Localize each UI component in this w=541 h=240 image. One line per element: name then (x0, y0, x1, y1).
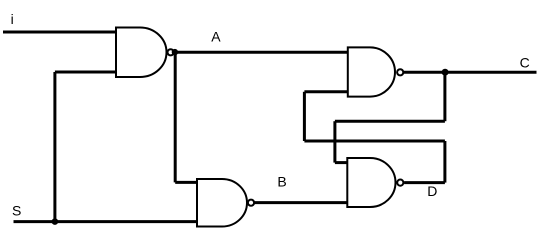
wire C feedback down to U4 (333, 121, 336, 162)
nand U4 body (347, 158, 395, 207)
svg-text:S: S (12, 203, 21, 219)
wire D output (404, 181, 445, 184)
wire S branch vertical (53, 72, 56, 222)
wire S branch to gate U1 (55, 71, 116, 74)
wire A branch to gate U2 (175, 181, 197, 184)
nand U1 bubble (168, 49, 174, 55)
svg-text:i: i (11, 11, 14, 27)
wire C feedback down (443, 72, 446, 121)
node A (172, 49, 178, 55)
node C junction (442, 69, 449, 76)
nand U1 body (116, 28, 167, 78)
nand U3 body (348, 47, 395, 96)
wire B output (254, 201, 347, 204)
wire D feedback left (304, 140, 445, 143)
svg-text:C: C (520, 55, 530, 71)
nand U3 bubble (397, 69, 403, 75)
svg-text:A: A (211, 29, 221, 45)
wire D feedback into U3 (304, 90, 347, 93)
node S junction (52, 218, 59, 225)
svg-text:D: D (427, 183, 437, 199)
nand U4 bubble (397, 180, 403, 186)
wire C feedback into U4 (335, 161, 347, 164)
wire C output (404, 71, 537, 74)
wire A branch vertical (174, 52, 177, 182)
nand U2 bubble (248, 200, 254, 206)
wire D feedback up to U3 (303, 92, 306, 141)
nand U2 body (197, 179, 247, 227)
wire i input (3, 31, 116, 34)
wire D feedback up (443, 141, 446, 183)
wire S input horizontal (14, 220, 198, 223)
wire C feedback left (335, 120, 445, 123)
wire A horizontal (174, 51, 348, 54)
svg-text:B: B (277, 174, 286, 190)
